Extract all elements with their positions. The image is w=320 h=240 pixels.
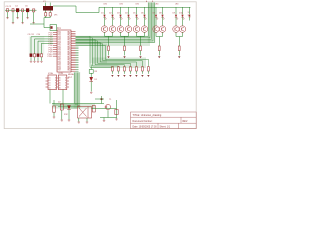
svg-text:B: B — [55, 82, 56, 84]
svg-text:Document Number:: Document Number: — [133, 120, 153, 123]
svg-text:C9 C11: C9 C11 — [28, 34, 36, 36]
svg-text:PA7: PA7 — [67, 69, 70, 72]
svg-text:PB7: PB7 — [58, 70, 61, 72]
svg-text:REV:: REV: — [183, 121, 189, 123]
svg-text:IC2B: IC2B — [58, 73, 63, 75]
svg-text:B: B — [65, 77, 66, 79]
svg-text:Sheet: 1/1: Sheet: 1/1 — [160, 126, 171, 129]
svg-text:B: B — [55, 87, 56, 89]
svg-text:B: B — [65, 82, 66, 84]
svg-text:TITLE: Unknown_drawing: TITLE: Unknown_drawing — [133, 114, 162, 117]
svg-text:IC1: IC1 — [57, 27, 61, 30]
svg-text:B: B — [55, 77, 56, 79]
svg-text:B: B — [65, 85, 66, 87]
svg-text:IC2A: IC2A — [48, 72, 53, 75]
svg-text:B: B — [65, 87, 66, 89]
svg-text:C1 C2: C1 C2 — [6, 6, 13, 8]
svg-text:B: B — [65, 80, 66, 82]
svg-text:B: B — [55, 80, 56, 82]
svg-text:Date: 10/05/2005 17:00: Date: 10/05/2005 17:00 — [133, 126, 158, 129]
svg-text:MEGA: MEGA — [68, 73, 74, 76]
svg-text:12: 12 — [188, 12, 190, 14]
svg-text:B: B — [55, 85, 56, 87]
